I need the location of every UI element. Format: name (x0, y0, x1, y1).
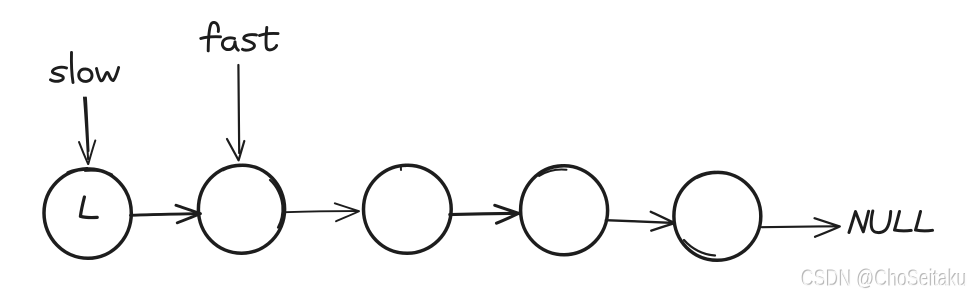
node 4 circle (521, 166, 608, 255)
svg-text:CSDN @ChoSeitaku: CSDN @ChoSeitaku (802, 265, 968, 291)
arrow fast pointer (227, 65, 244, 160)
node 3 circle (363, 165, 451, 253)
label "slow" (51, 53, 119, 83)
arrow node2 to node3 (286, 203, 359, 221)
node 5 circle (674, 172, 761, 260)
arrow node3 to node4 (450, 205, 519, 223)
node 1 circle (slow position) (44, 169, 131, 259)
node 2 circle (fast position) (198, 165, 284, 253)
label "NULL" (849, 211, 933, 233)
arrow node4 to node5 (606, 212, 675, 231)
arrow node1 to node2 (131, 205, 201, 223)
node 1 value "L" (80, 197, 97, 218)
label "fast" (201, 22, 278, 50)
arrow node5 to NULL (762, 218, 840, 237)
arrow slow pointer (79, 98, 95, 165)
